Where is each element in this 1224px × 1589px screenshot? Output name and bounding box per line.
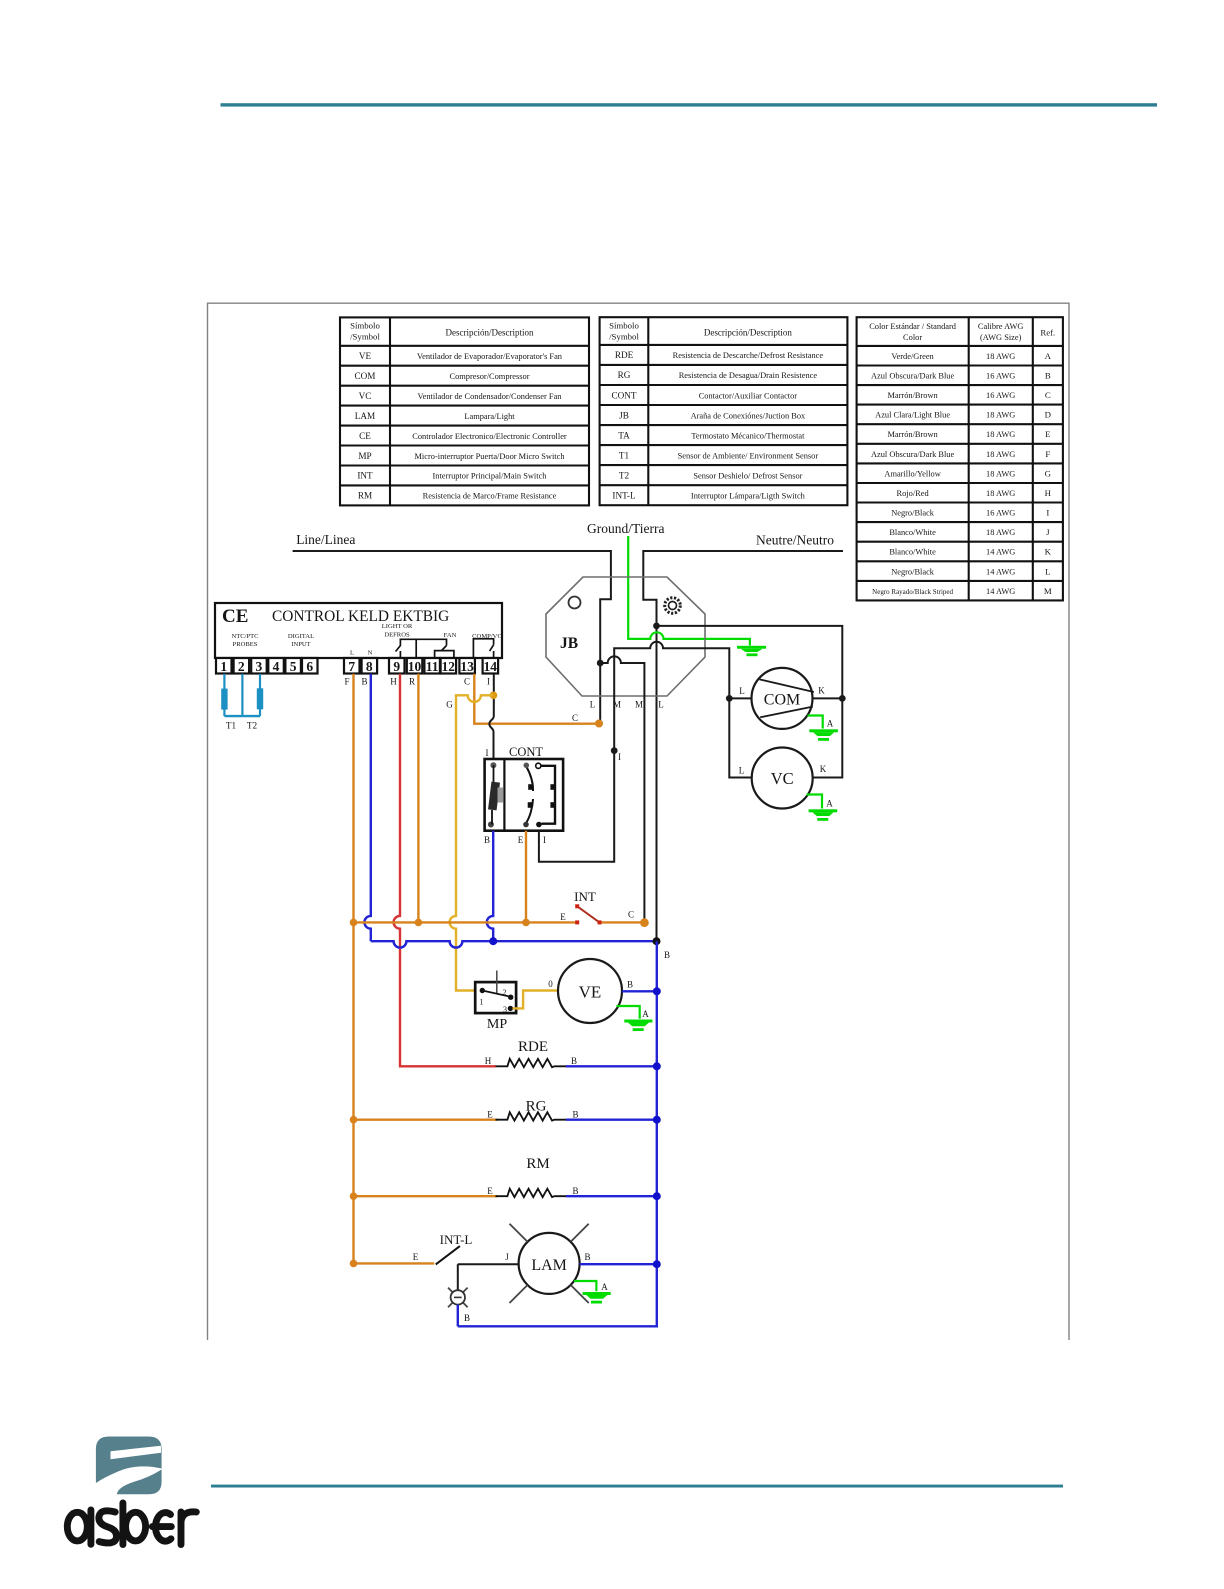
svg-text:H: H	[390, 677, 397, 687]
svg-text:3: 3	[256, 659, 263, 674]
node F bus corner	[350, 919, 358, 927]
svg-text:VC: VC	[771, 769, 794, 788]
wire VC ground lead	[807, 795, 823, 809]
svg-text:16 AWG: 16 AWG	[986, 371, 1015, 380]
svg-text:18 AWG: 18 AWG	[986, 411, 1015, 420]
svg-text:T1: T1	[226, 721, 237, 731]
wire H red from terminal 9 to RDE (hops orange bus)	[394, 674, 496, 1067]
asber logo icon	[96, 1437, 162, 1495]
svg-text:INT-L: INT-L	[440, 1232, 473, 1247]
CE terminal row	[216, 658, 498, 674]
svg-text:T2: T2	[247, 721, 258, 731]
svg-text:G: G	[446, 700, 453, 710]
svg-text:PROBES: PROBES	[233, 641, 258, 648]
wire neutral node to COM K and VC K	[657, 626, 843, 778]
svg-text:MP: MP	[358, 451, 371, 461]
svg-text:B: B	[627, 980, 633, 990]
svg-text:F: F	[344, 677, 349, 687]
svg-text:Sensor de Ambiente/ Environmen: Sensor de Ambiente/ Environment Sensor	[678, 451, 819, 460]
node neutral joins blue bus	[653, 937, 661, 945]
svg-text:COM: COM	[355, 371, 376, 381]
svg-text:INT-L: INT-L	[612, 490, 636, 500]
svg-text:E: E	[518, 835, 524, 845]
svg-text:5: 5	[290, 659, 297, 674]
svg-text:Interruptor Lámpara/Ligth Swit: Interruptor Lámpara/Ligth Switch	[691, 491, 806, 500]
wire Line feed (L) into JB	[293, 551, 611, 723]
node CONT E on bus	[522, 919, 530, 927]
wire JB inner horizontal to M2 down-to-bus	[600, 656, 644, 921]
svg-text:J: J	[505, 1252, 509, 1262]
svg-text:RDE: RDE	[518, 1039, 548, 1055]
wire F orange from terminal 7	[352, 674, 354, 923]
svg-text:JB: JB	[560, 635, 578, 652]
contactor CONT	[485, 745, 563, 831]
svg-text:Azul Clara/Light Blue: Azul Clara/Light Blue	[875, 411, 950, 420]
svg-text:A: A	[601, 1282, 608, 1292]
svg-text:JB: JB	[619, 410, 629, 420]
svg-text:6: 6	[306, 659, 313, 674]
svg-text:C: C	[572, 713, 578, 723]
svg-text:Ref.: Ref.	[1040, 327, 1055, 337]
svg-text:Amarillo/Yellow: Amarillo/Yellow	[884, 469, 941, 478]
ground symbol LAM (A)	[583, 1292, 611, 1304]
evaporator fan VE	[558, 959, 622, 1023]
svg-text:B: B	[572, 1110, 578, 1120]
svg-text:(AWG Size): (AWG Size)	[980, 333, 1022, 342]
orange bus right of INT	[600, 921, 644, 923]
svg-text:Termostato Mécanico/Thermostat: Termostato Mécanico/Thermostat	[691, 431, 805, 440]
svg-text:Azul Obscura/Dark Blue: Azul Obscura/Dark Blue	[871, 450, 955, 459]
svg-text:18 AWG: 18 AWG	[986, 489, 1015, 498]
lamp LAM	[510, 1224, 589, 1303]
svg-text:B: B	[1045, 370, 1051, 380]
svg-text:I: I	[618, 752, 621, 762]
top teal rule	[221, 103, 1158, 106]
electronic controller CE box	[215, 603, 502, 658]
node L junction in JB	[597, 660, 604, 667]
svg-text:16 AWG: 16 AWG	[986, 391, 1015, 400]
blue bus (hops red and yellow wires)	[371, 941, 657, 947]
node LAM on trunk	[653, 1260, 661, 1268]
node C (orange dot)	[595, 720, 603, 728]
svg-text:C: C	[628, 910, 634, 920]
svg-text:I: I	[486, 748, 489, 758]
svg-text:M: M	[635, 700, 643, 710]
svg-text:B: B	[571, 1056, 577, 1066]
svg-text:A: A	[827, 719, 834, 729]
svg-text:C: C	[464, 677, 470, 687]
node neutral junction	[653, 623, 660, 630]
svg-text:M: M	[1044, 586, 1052, 596]
svg-text:DEFROS: DEFROS	[384, 632, 410, 639]
svg-text:Controlador Electronico/Electr: Controlador Electronico/Electronic Contr…	[412, 432, 567, 441]
svg-text:Descripción/Description: Descripción/Description	[704, 327, 792, 337]
svg-text:Lampara/Light: Lampara/Light	[464, 412, 515, 421]
svg-text:L: L	[739, 686, 745, 696]
svg-text:Símbolo: Símbolo	[609, 321, 639, 331]
wire VE ground lead	[617, 1006, 640, 1019]
svg-text:I: I	[543, 835, 546, 845]
svg-text:12: 12	[442, 659, 456, 674]
svg-text:/Symbol: /Symbol	[350, 332, 380, 342]
svg-text:Ventilador de Evaporador/Evapo: Ventilador de Evaporador/Evaporator's Fa…	[417, 352, 563, 361]
svg-text:F: F	[1045, 449, 1050, 459]
svg-text:Negro Rayado/Black Striped: Negro Rayado/Black Striped	[872, 588, 953, 596]
wire I black from terminal 14 to CONT coil (s-jog over orange)	[489, 674, 494, 759]
svg-text:Color: Color	[903, 333, 922, 342]
wire indicator to bottom blue loop	[457, 1305, 459, 1327]
svg-text:/Symbol: /Symbol	[609, 332, 639, 342]
svg-text:Verde/Green: Verde/Green	[891, 352, 934, 361]
wire MP out yellow to VE	[513, 991, 559, 1009]
svg-text:T2: T2	[619, 470, 630, 480]
svg-text:E: E	[487, 1110, 493, 1120]
orange bus left of INT	[354, 921, 578, 923]
svg-text:7: 7	[348, 659, 355, 674]
wire CONT E orange to bus	[525, 831, 527, 923]
wire blue trunk down right side	[458, 941, 657, 1326]
node bus to JB M2 (orange)	[640, 918, 649, 927]
svg-text:9: 9	[393, 659, 400, 674]
svg-text:Contactor/Auxiliar Contactor: Contactor/Auxiliar Contactor	[699, 391, 798, 400]
svg-text:N: N	[368, 650, 373, 657]
svg-text:CONT: CONT	[611, 390, 636, 400]
JB mounting hole left	[569, 597, 581, 609]
svg-text:3: 3	[503, 1005, 507, 1014]
ground symbol VE (A)	[624, 1020, 652, 1032]
svg-text:18 AWG: 18 AWG	[986, 528, 1015, 537]
JB bolt right	[665, 598, 681, 614]
svg-text:E: E	[487, 1186, 493, 1196]
compressor COM	[739, 668, 825, 729]
svg-text:1: 1	[480, 998, 484, 1007]
svg-text:CONTROL KELD EKTBIG: CONTROL KELD EKTBIG	[272, 608, 449, 625]
junction box JB octagon	[546, 577, 705, 696]
relay contact comp/vc (13-14)	[473, 639, 493, 658]
resistor RM	[496, 1189, 567, 1197]
svg-text:RG: RG	[618, 370, 631, 380]
svg-text:Marrón/Brown: Marrón/Brown	[887, 391, 938, 400]
probe T1	[224, 674, 242, 716]
wire COM ground lead	[808, 716, 823, 729]
svg-text:LAM: LAM	[355, 411, 375, 421]
svg-text:Negro/Black: Negro/Black	[891, 567, 935, 576]
svg-text:10: 10	[408, 659, 422, 674]
svg-text:G: G	[1045, 468, 1052, 478]
indicator lamp symbol	[448, 1288, 468, 1308]
svg-text:VE: VE	[359, 351, 372, 361]
svg-text:TA: TA	[618, 430, 630, 440]
svg-text:MP: MP	[487, 1017, 507, 1032]
svg-text:COM: COM	[764, 692, 800, 709]
svg-text:Ventilador de Condensador/Cond: Ventilador de Condensador/Condenser Fan	[418, 392, 563, 401]
svg-text:B: B	[361, 677, 367, 687]
svg-text:14 AWG: 14 AWG	[986, 587, 1015, 596]
svg-text:B: B	[572, 1186, 578, 1196]
svg-text:14 AWG: 14 AWG	[986, 548, 1015, 557]
svg-text:13: 13	[460, 659, 474, 674]
svg-text:11: 11	[426, 659, 439, 674]
svg-text:NTC/PTC: NTC/PTC	[231, 633, 259, 640]
wire LAM ground lead	[574, 1281, 596, 1291]
svg-text:B: B	[584, 1252, 590, 1262]
node M1/CONT junction	[611, 747, 618, 754]
wire INT-L to LAM	[458, 1263, 519, 1265]
svg-text:2: 2	[238, 659, 245, 674]
svg-text:0: 0	[548, 979, 553, 989]
wire ground (green) into JB	[628, 536, 750, 646]
node INT-L on orange trunk	[350, 1260, 358, 1268]
bottom teal rule	[211, 1485, 1063, 1488]
wire color table	[857, 317, 1063, 600]
svg-text:Line/Linea: Line/Linea	[296, 532, 355, 547]
wire COM K lead	[813, 697, 843, 699]
svg-text:K: K	[1045, 547, 1052, 557]
svg-text:Calibre AWG: Calibre AWG	[978, 322, 1024, 331]
svg-text:14 AWG: 14 AWG	[986, 567, 1015, 576]
wire B blue from terminal 8 (hops orange bus)	[364, 674, 370, 941]
svg-text:Interruptor Principal/Main Swi: Interruptor Principal/Main Switch	[433, 472, 548, 481]
wire C orange from terminal 13 to node C	[474, 674, 596, 724]
svg-text:E: E	[413, 1252, 419, 1262]
micro switch MP	[475, 971, 516, 1015]
switch INT lever	[577, 906, 599, 922]
svg-text:Blanco/White: Blanco/White	[889, 548, 936, 557]
wire LAM to blue trunk	[580, 1263, 657, 1265]
svg-text:Resistencia de Marco/Frame Res: Resistencia de Marco/Frame Resistance	[423, 492, 557, 501]
svg-text:VE: VE	[579, 983, 602, 1002]
ground symbol VC (A)	[809, 809, 838, 821]
svg-text:L: L	[350, 650, 354, 657]
wire down to indicator	[457, 1264, 459, 1290]
svg-text:18 AWG: 18 AWG	[986, 352, 1015, 361]
switch INT-L lever	[436, 1246, 460, 1264]
svg-text:RDE: RDE	[615, 350, 634, 360]
svg-text:8: 8	[366, 659, 373, 674]
svg-text:L: L	[590, 700, 596, 710]
svg-text:L: L	[1045, 566, 1050, 576]
wire CONT I black to JB M1	[539, 751, 614, 862]
svg-text:DIGITAL: DIGITAL	[288, 633, 314, 640]
svg-text:16 AWG: 16 AWG	[986, 509, 1015, 518]
svg-text:18 AWG: 18 AWG	[986, 450, 1015, 459]
svg-text:T1: T1	[619, 450, 630, 460]
svg-text:1: 1	[220, 659, 227, 674]
svg-text:18 AWG: 18 AWG	[986, 469, 1015, 478]
svg-text:4: 4	[273, 659, 280, 674]
svg-text:A: A	[826, 799, 833, 809]
svg-text:R: R	[409, 677, 415, 687]
condenser fan VC	[739, 748, 827, 809]
svg-text:L: L	[658, 700, 664, 710]
svg-text:Blanco/White: Blanco/White	[889, 528, 936, 537]
svg-text:Sensor Deshielo/ Defrost Senso: Sensor Deshielo/ Defrost Sensor	[693, 471, 802, 480]
svg-text:H: H	[485, 1056, 492, 1066]
svg-text:Azul Obscura/Dark Blue: Azul Obscura/Dark Blue	[871, 371, 955, 380]
asber wordmark	[67, 1503, 196, 1545]
wire R orange from terminal 10 to bus	[417, 674, 419, 923]
svg-text:B: B	[484, 835, 490, 845]
svg-text:RM: RM	[526, 1156, 549, 1172]
svg-text:LIGHT OR: LIGHT OR	[382, 623, 413, 630]
node COM L	[726, 695, 733, 702]
svg-text:VC: VC	[359, 391, 372, 401]
node term10 on bus	[415, 919, 423, 927]
svg-text:CONT: CONT	[509, 745, 543, 759]
svg-text:INT: INT	[357, 471, 373, 481]
wire INT-L feed orange	[354, 1262, 435, 1264]
resistor RDE	[496, 1059, 567, 1067]
svg-text:Ground/Tierra: Ground/Tierra	[587, 521, 665, 536]
wire Neutral feed into JB and down to blue bus	[643, 551, 843, 941]
svg-text:A: A	[642, 1009, 649, 1019]
ground symbol COM (A)	[809, 729, 838, 741]
svg-text:A: A	[1045, 351, 1052, 361]
svg-text:INT: INT	[574, 889, 596, 904]
svg-text:Resistencia de Descarche/Defro: Resistencia de Descarche/Defrost Resista…	[673, 351, 824, 360]
node RG on orange trunk	[350, 1116, 358, 1124]
svg-text:FAN: FAN	[444, 632, 457, 639]
svg-text:Araña de Conexiónes/Juction Bo: Araña de Conexiónes/Juction Box	[691, 411, 806, 420]
svg-text:B: B	[664, 950, 670, 960]
svg-text:CE: CE	[222, 606, 248, 627]
svg-text:LAM: LAM	[531, 1257, 567, 1274]
wire COM L lead	[729, 697, 751, 699]
svg-text:L: L	[739, 766, 745, 776]
wire G yellow to MP (hops orange vert + orange bus)	[450, 695, 494, 990]
wire probe common	[241, 674, 243, 716]
wire orange trunk down left side	[352, 922, 354, 1263]
svg-text:K: K	[820, 764, 827, 774]
svg-text:Marrón/Brown: Marrón/Brown	[887, 430, 938, 439]
svg-text:CE: CE	[359, 431, 371, 441]
svg-text:B: B	[464, 1313, 470, 1323]
wire RG feed orange	[354, 1118, 498, 1120]
node G tap on wire I	[490, 692, 498, 700]
svg-text:Rojo/Red: Rojo/Red	[897, 489, 930, 498]
svg-text:E: E	[560, 912, 566, 922]
node COM K	[839, 695, 846, 702]
relay contact fan (10-12)	[416, 639, 454, 657]
ground symbol at JB	[737, 646, 766, 656]
svg-text:D: D	[1045, 410, 1051, 420]
relay contact light/defrost (9-10)	[396, 639, 417, 657]
svg-text:18 AWG: 18 AWG	[986, 430, 1015, 439]
svg-text:INPUT: INPUT	[291, 641, 310, 648]
symbol table 1 (VE..RM)	[340, 317, 589, 505]
wire RM feed orange	[354, 1195, 498, 1197]
svg-text:Color Estándar / Standard: Color Estándar / Standard	[869, 322, 957, 331]
svg-text:Resistencia de Desagua/Drain R: Resistencia de Desagua/Drain Resistence	[679, 371, 818, 380]
node RM on orange trunk	[350, 1192, 358, 1200]
wire JB M1 branch to COM L and VC L	[614, 642, 752, 778]
svg-text:E: E	[1045, 429, 1050, 439]
symbol table 2 (RDE..INT-L)	[600, 317, 848, 505]
svg-text:K: K	[818, 686, 825, 696]
svg-text:Compresor/Compressor: Compresor/Compressor	[449, 372, 529, 381]
svg-text:Descripción/Description: Descripción/Description	[446, 328, 534, 338]
diagram outer frame	[208, 303, 1070, 1340]
svg-text:C: C	[1045, 390, 1051, 400]
svg-text:J: J	[1046, 527, 1050, 537]
svg-text:I: I	[487, 677, 490, 687]
probe T2	[242, 674, 260, 716]
svg-text:RM: RM	[358, 491, 372, 501]
svg-text:14: 14	[484, 659, 498, 674]
wire CONT B blue to bus (hops orange bus)	[487, 831, 493, 942]
svg-text:I: I	[1046, 508, 1049, 518]
svg-text:Micro-interruptor Puerta/Door: Micro-interruptor Puerta/Door Micro Swit…	[414, 452, 565, 461]
svg-text:H: H	[1045, 488, 1052, 498]
svg-text:Símbolo: Símbolo	[350, 321, 380, 331]
node CONT B on blue bus	[489, 937, 497, 945]
resistor RG	[496, 1112, 567, 1120]
wire VE to blue trunk	[622, 990, 657, 992]
svg-text:2: 2	[503, 988, 507, 997]
node VE on trunk	[653, 987, 661, 995]
svg-text:Neutre/Neutro: Neutre/Neutro	[756, 533, 834, 548]
svg-text:Negro/Black: Negro/Black	[891, 509, 935, 518]
